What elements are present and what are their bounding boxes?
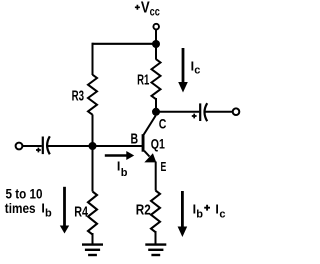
node Vcc junction (152, 40, 160, 48)
svg-text:R4: R4 (74, 203, 88, 220)
current arrow Ic (178, 48, 188, 93)
transistor Q1 (142, 112, 157, 191)
svg-text:5 to 10: 5 to 10 (6, 187, 43, 202)
current arrow 5-10 times Ib (60, 187, 69, 234)
wire R3-R4 middle (92, 115, 94, 192)
resistor R3 (88, 75, 97, 115)
Vcc terminal (153, 24, 159, 30)
svg-text:C: C (159, 116, 167, 132)
resistor R2 (151, 191, 160, 233)
wire top horizontal (93, 43, 157, 45)
node collector junction (152, 108, 160, 116)
output terminal (233, 108, 240, 115)
wire output left (156, 111, 199, 113)
capacitor output (polarized) (192, 103, 207, 121)
svg-text:R2: R2 (136, 201, 151, 218)
wire R4 ground stub (92, 233, 94, 244)
wire R3 top lead (92, 43, 94, 75)
svg-text:b: b (121, 167, 128, 179)
node Vcc label (135, 5, 140, 10)
svg-text:R1: R1 (137, 71, 149, 88)
wire R2 ground stub (155, 231, 157, 244)
svg-text:c: c (219, 208, 225, 220)
wire output right (205, 111, 232, 113)
wire base (48, 145, 142, 147)
input terminal (16, 143, 23, 150)
wire R1 top lead (155, 44, 157, 60)
resistor R1 (152, 59, 161, 99)
current arrow Ib+Ic (178, 191, 188, 237)
svg-text:b: b (45, 208, 52, 220)
emitter lead (144, 151, 156, 191)
svg-text:cc: cc (150, 6, 161, 18)
svg-text:c: c (194, 64, 200, 76)
node base junction (89, 142, 97, 150)
svg-text:times: times (5, 201, 36, 216)
wire R1 bottom lead (155, 98, 157, 112)
wire input left (23, 145, 42, 147)
resistor R4 (88, 192, 97, 235)
svg-text:R3: R3 (72, 88, 84, 105)
svg-text:I: I (215, 203, 218, 217)
svg-text:b: b (196, 209, 203, 221)
ground (right) (145, 245, 166, 255)
current arrow Ib (105, 151, 134, 160)
capacitor input (polarized) (36, 136, 50, 154)
emitter arrowhead (144, 153, 156, 162)
wire Vcc stub (155, 30, 157, 45)
ground (left) (82, 245, 103, 255)
svg-text:E: E (161, 160, 167, 174)
base bar (142, 134, 145, 152)
collector lead (143, 112, 155, 135)
svg-text:Q1: Q1 (151, 136, 165, 152)
